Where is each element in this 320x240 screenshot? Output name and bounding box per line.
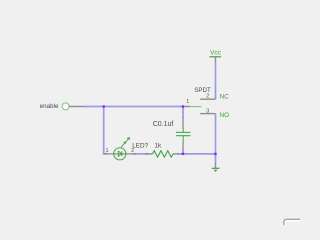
svg-text:NC: NC [220, 93, 230, 100]
svg-text:LED?: LED? [132, 142, 148, 149]
svg-text:C0.1uf: C0.1uf [153, 121, 174, 128]
wire: resistor to NO vertical (bottom horizontal) [178, 153, 216, 155]
switch pin 3 [206, 108, 209, 114]
junction D [214, 153, 217, 156]
svg-text:2: 2 [206, 94, 209, 100]
switch pin 1 [186, 99, 189, 105]
power Vcc [209, 49, 221, 62]
net label NC [220, 93, 230, 100]
label 1k [155, 142, 163, 149]
svg-text:Vcc: Vcc [210, 49, 221, 56]
switch SPDT [184, 99, 216, 113]
wire: capacitor top (junction B down) [182, 107, 184, 119]
capacitor C0.1uf [176, 117, 191, 151]
resistor 1k [145, 151, 179, 157]
LED pin 1 [106, 148, 109, 154]
junction B [182, 105, 185, 108]
svg-text:3: 3 [206, 108, 209, 114]
label C0.1uf [153, 121, 174, 128]
junction A [102, 105, 105, 108]
switch pin 2 [206, 94, 209, 100]
svg-text:enable: enable [40, 103, 59, 110]
ground [212, 163, 220, 172]
port enable [40, 103, 84, 110]
wire: Vcc down to switch pin 2 [215, 62, 217, 100]
junction C [182, 153, 185, 156]
LED D? [104, 137, 136, 160]
wire: capacitor bottom to junction C [182, 150, 184, 154]
svg-text:1k: 1k [155, 142, 163, 149]
svg-text:1: 1 [186, 99, 189, 105]
wire: LED to resistor [133, 153, 148, 155]
svg-text:1: 1 [106, 148, 109, 154]
wire: junction A down to LED row [104, 107, 108, 154]
wire: enable port to junction A (horizontal) [84, 106, 183, 108]
label LED? [132, 142, 148, 149]
label SPDT [194, 87, 211, 94]
wire: switch pin 3 down to ground node [215, 114, 217, 164]
net label NO [220, 112, 230, 119]
svg-text:NO: NO [220, 112, 230, 119]
svg-text:2: 2 [131, 148, 134, 154]
panel corner bottom-right [284, 219, 300, 225]
LED pin 2 [131, 148, 134, 154]
